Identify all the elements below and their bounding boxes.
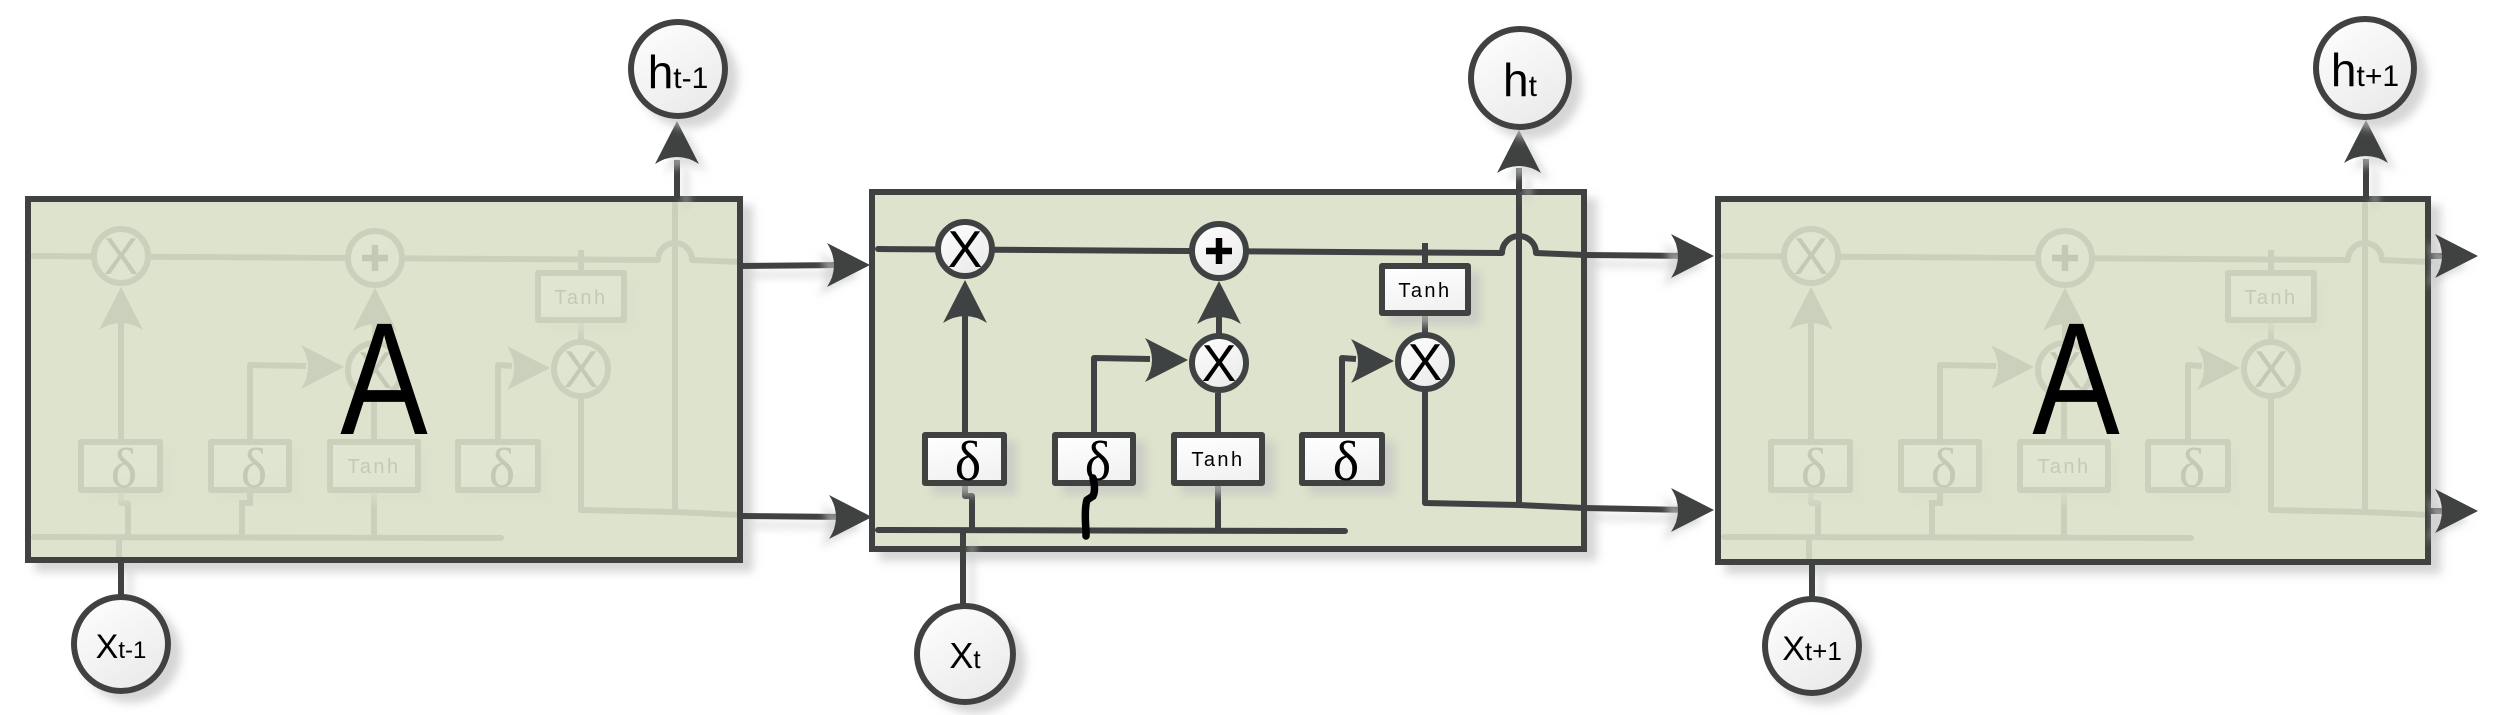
LSTM cell block t (872, 192, 1584, 549)
wire: x(t+1) input line (1809, 562, 1815, 599)
wire+arrow: cell state from t to t+1 (1584, 255, 1689, 256)
wire: h(t+1) output line (2363, 159, 2369, 199)
cell internals (full detail) (878, 192, 1584, 552)
ghost internals of cell t+1 (1724, 199, 2430, 559)
wire: h(t-1) output line (674, 160, 680, 199)
arrowhead to h(t-1) (655, 121, 699, 164)
node h(t+1) (2316, 19, 2414, 117)
LSTM cell block A(t+1) (1718, 199, 2428, 562)
wire: x(t) input line (960, 530, 966, 606)
svg-text:Xt+1: Xt+1 (1782, 630, 1842, 668)
wire+arrow: hidden state output of t+1 (2428, 508, 2452, 514)
node h(t) (1471, 29, 1569, 127)
arrowhead to h(t+1) (2344, 120, 2388, 163)
wire+arrow: cell state output of t+1 (2428, 253, 2452, 259)
wire: x(t-1) input line (118, 560, 124, 597)
node h(t-1) (631, 22, 725, 116)
wire+arrow: hidden state from t-1 to t (742, 516, 847, 517)
wire: h(t) output line above cell (1516, 168, 1522, 192)
node x(t+1) (1765, 599, 1859, 693)
wire+arrow: hidden state from t to t+1 (1584, 508, 1689, 510)
arrowhead to h(t) (1497, 130, 1541, 173)
node x(t) (917, 606, 1013, 702)
wire+arrow: cell state from t-1 to t (740, 265, 845, 266)
svg-text:A: A (340, 291, 428, 469)
hand-drawn black connector under delta2 (1085, 478, 1094, 536)
LSTM cell block A(t-1) (28, 199, 740, 560)
ghost internals of cell t-1 (34, 199, 740, 559)
svg-text:A: A (2032, 291, 2120, 469)
node x(t-1) (74, 597, 168, 691)
